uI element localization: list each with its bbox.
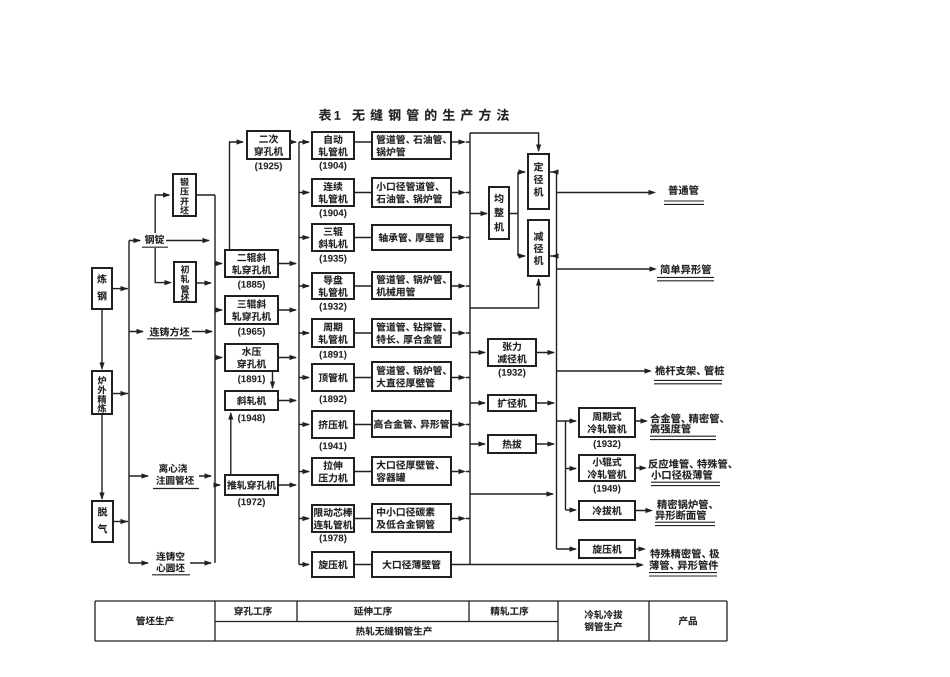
wire trunk→钢锭→riser bbox=[129, 240, 209, 242]
wire output 普通管 bbox=[557, 192, 655, 194]
wire 穿孔机 outputs→C1 bbox=[278, 142, 296, 485]
wire R5→冷拔机 bbox=[566, 509, 577, 511]
box 产品-小口径管道管 bbox=[372, 178, 451, 207]
box 产品-大直径厚壁管 bbox=[372, 362, 451, 391]
box 导盘轧管机 bbox=[312, 273, 354, 299]
box 定径机 bbox=[528, 154, 549, 209]
wire 钢锭→初轧管坯 bbox=[155, 248, 170, 283]
box 产品-管道管锅炉管机械用管 bbox=[372, 272, 451, 299]
box 二次穿孔机 bbox=[247, 131, 290, 159]
wire 二辊斜轧穿孔机→二次穿孔机 bbox=[230, 142, 244, 250]
wire 炉外精炼→脱气 bbox=[101, 414, 103, 499]
wire 水压穿孔机→斜轧机 bbox=[272, 371, 274, 388]
box 拉伸压力机 bbox=[312, 458, 354, 485]
box 自动轧管机 bbox=[312, 132, 354, 159]
box 产品-大口径薄壁管 bbox=[372, 552, 451, 577]
box 产品-管道管石油管锅炉管 bbox=[372, 132, 451, 159]
wire 推轧穿孔机→斜轧机 bbox=[230, 413, 232, 475]
box 产品-中小口径碳素钢管 bbox=[372, 504, 451, 532]
box 锻压开坯 bbox=[173, 174, 196, 216]
wire C2→R4 link bbox=[470, 493, 553, 495]
wire 脱气→trunk bbox=[113, 521, 128, 523]
double underlines of product outputs bbox=[649, 201, 722, 576]
bottom table bbox=[95, 601, 727, 641]
wire collector C1 bbox=[298, 142, 300, 565]
wire C2→均整机 bbox=[470, 213, 487, 215]
arrowheads for all wires bbox=[99, 139, 657, 567]
wire riser R4 bbox=[556, 172, 558, 549]
box 小辊式冷轧管机 bbox=[579, 455, 635, 481]
wire trunk→连铸空心圆坯→R1 bbox=[129, 562, 211, 564]
box 三辊斜轧穿孔机 bbox=[225, 296, 278, 324]
box 斜轧机 bbox=[225, 391, 278, 410]
box 初轧管坯 bbox=[174, 262, 196, 302]
all text glyphs (labels, titles, outputs, table) bbox=[97, 109, 731, 636]
box 水压穿孔机 bbox=[225, 344, 278, 371]
box 周期轧管机 bbox=[312, 319, 354, 347]
box 顶管机 bbox=[312, 364, 354, 391]
box 旋压机(冷) bbox=[579, 540, 635, 558]
box 产品-大口径厚壁管容器罐 bbox=[372, 457, 451, 485]
box 炉外精炼 bbox=[92, 371, 112, 414]
box 连续轧管机 bbox=[312, 179, 354, 206]
wire 减径机↔R4 bbox=[549, 255, 557, 257]
wire C1→轧管机 stubs bbox=[299, 142, 309, 565]
box 周期式冷轧管机 bbox=[579, 408, 635, 437]
wire R4→周期式冷轧管机 + riser R5 bbox=[557, 421, 577, 510]
box 冷拔机 bbox=[579, 501, 635, 520]
box 扩径机 bbox=[488, 395, 536, 411]
box 推轧穿孔机 bbox=[225, 475, 278, 495]
box 二辊斜轧穿孔机 bbox=[225, 250, 278, 277]
box 产品-轴承管厚壁管 bbox=[372, 225, 451, 250]
box 均整机 bbox=[489, 187, 509, 239]
wire collector C2 bbox=[469, 133, 471, 565]
wire C2→定径机 top bbox=[470, 133, 539, 151]
box 限动芯棒连轧管机 bbox=[312, 505, 354, 532]
wire R1→穿孔机 stubs bbox=[215, 264, 222, 486]
wire 炼钢→trunk bbox=[112, 288, 128, 290]
wire 均整机→定径机/减径机 bbox=[509, 172, 525, 256]
underlines 钢锭/连铸方坯/离心浇注圆管坯/连铸空心圆坯 bbox=[142, 247, 199, 575]
wire 定径机↔R4 bbox=[549, 171, 557, 173]
wire 炼钢→炉外精炼 bbox=[101, 309, 103, 369]
box 产品-管道管钻探管 bbox=[372, 319, 451, 347]
box 挤压机 bbox=[312, 411, 354, 438]
box 旋压机(热轧) bbox=[312, 552, 354, 577]
box 减径机 bbox=[528, 220, 549, 276]
wire output 简单异形管 bbox=[557, 268, 656, 270]
wire 炉外精炼→trunk bbox=[112, 393, 128, 395]
wire trunk→离心浇注圆管坯→R1 bbox=[129, 475, 211, 477]
wire R4→旋压机 bbox=[557, 548, 577, 550]
box 三辊斜轧机 bbox=[312, 224, 354, 251]
box 张力减径机 bbox=[488, 339, 536, 366]
wire C2→张力减径机/扩径机/热拔→R4 bbox=[470, 353, 554, 445]
wire 初轧管坯→R1 bbox=[196, 282, 211, 284]
wire 冷轧管机 outputs bbox=[635, 421, 651, 549]
wire 产品 outputs→C2 bbox=[451, 142, 470, 519]
wire trunk→连铸方坯→R1 bbox=[129, 331, 212, 333]
box 产品-高合金管异形管 bbox=[372, 411, 451, 437]
wire riser R1 bbox=[214, 195, 216, 563]
box 热拔 bbox=[488, 435, 536, 453]
box 脱气 bbox=[92, 501, 113, 542]
wire 钢锭→锻压开坯 bbox=[155, 195, 169, 233]
wire 锻压开坯→riser R1 bbox=[196, 194, 215, 196]
wire 大口径薄壁管 long output bbox=[451, 564, 642, 566]
wire output 桅杆支架管桩 bbox=[557, 370, 651, 372]
box 炼钢 bbox=[92, 268, 112, 309]
wire R5→小辊式冷轧管机 bbox=[566, 468, 577, 470]
wire trunk vertical bbox=[128, 241, 130, 564]
wire C2→减径机 bottom bbox=[470, 279, 539, 308]
wire 轧管机→产品 links bbox=[354, 142, 372, 565]
